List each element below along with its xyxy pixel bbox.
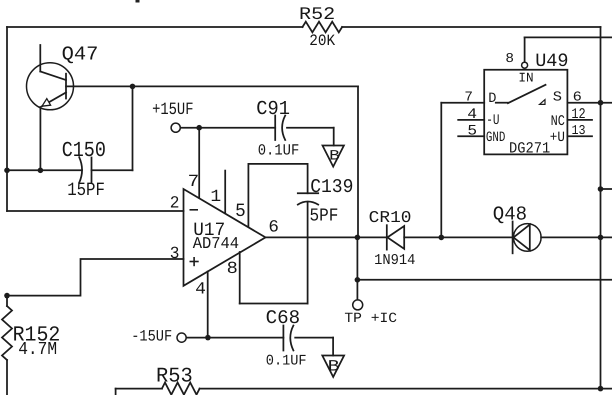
- svg-text:DG271: DG271: [509, 139, 550, 157]
- svg-text:Q48: Q48: [493, 204, 527, 226]
- svg-text:1: 1: [210, 188, 221, 207]
- svg-text:20K: 20K: [309, 32, 335, 50]
- svg-text:AD744: AD744: [193, 234, 239, 253]
- svg-text:C91: C91: [256, 98, 290, 120]
- svg-text:B: B: [328, 357, 340, 375]
- svg-text:R52: R52: [299, 5, 335, 25]
- svg-text:IN: IN: [518, 70, 533, 85]
- svg-text:8: 8: [505, 52, 514, 67]
- svg-text:-U: -U: [486, 113, 499, 129]
- svg-text:6: 6: [573, 90, 582, 105]
- svg-text:2: 2: [170, 194, 180, 213]
- svg-text:R53: R53: [156, 366, 193, 389]
- svg-text:-15UF: -15UF: [131, 328, 172, 346]
- svg-text:GND: GND: [486, 130, 506, 146]
- svg-text:U49: U49: [535, 50, 568, 72]
- svg-text:7: 7: [188, 173, 200, 192]
- svg-text:8: 8: [227, 260, 238, 279]
- svg-text:3: 3: [170, 245, 180, 264]
- svg-text:4.7M: 4.7M: [18, 340, 57, 360]
- svg-text:13: 13: [572, 124, 586, 139]
- svg-text:+15UF: +15UF: [152, 101, 193, 120]
- svg-text:C150: C150: [62, 139, 106, 163]
- svg-text:D: D: [488, 91, 496, 107]
- svg-text:+U: +U: [550, 130, 565, 146]
- svg-text:6: 6: [268, 218, 279, 237]
- svg-text:12: 12: [571, 107, 585, 123]
- svg-text:4: 4: [195, 281, 206, 300]
- svg-text:5: 5: [467, 124, 477, 140]
- svg-text:C139: C139: [310, 176, 353, 198]
- svg-text:5PF: 5PF: [310, 206, 339, 226]
- svg-text:0.1UF: 0.1UF: [266, 353, 307, 369]
- svg-text:Q47: Q47: [62, 44, 99, 66]
- svg-text:4: 4: [467, 107, 477, 123]
- svg-text:1N914: 1N914: [374, 252, 415, 269]
- svg-text:CR10: CR10: [369, 208, 412, 227]
- svg-text:S: S: [553, 90, 562, 105]
- svg-text:TP +IC: TP +IC: [344, 311, 397, 327]
- svg-text:NC: NC: [551, 114, 565, 130]
- svg-text:C68: C68: [266, 307, 301, 329]
- svg-text:7: 7: [464, 91, 473, 106]
- svg-text:B: B: [329, 148, 340, 164]
- svg-text:5: 5: [235, 200, 246, 222]
- svg-text:0.1UF: 0.1UF: [258, 141, 300, 159]
- svg-text:15PF: 15PF: [67, 179, 105, 201]
